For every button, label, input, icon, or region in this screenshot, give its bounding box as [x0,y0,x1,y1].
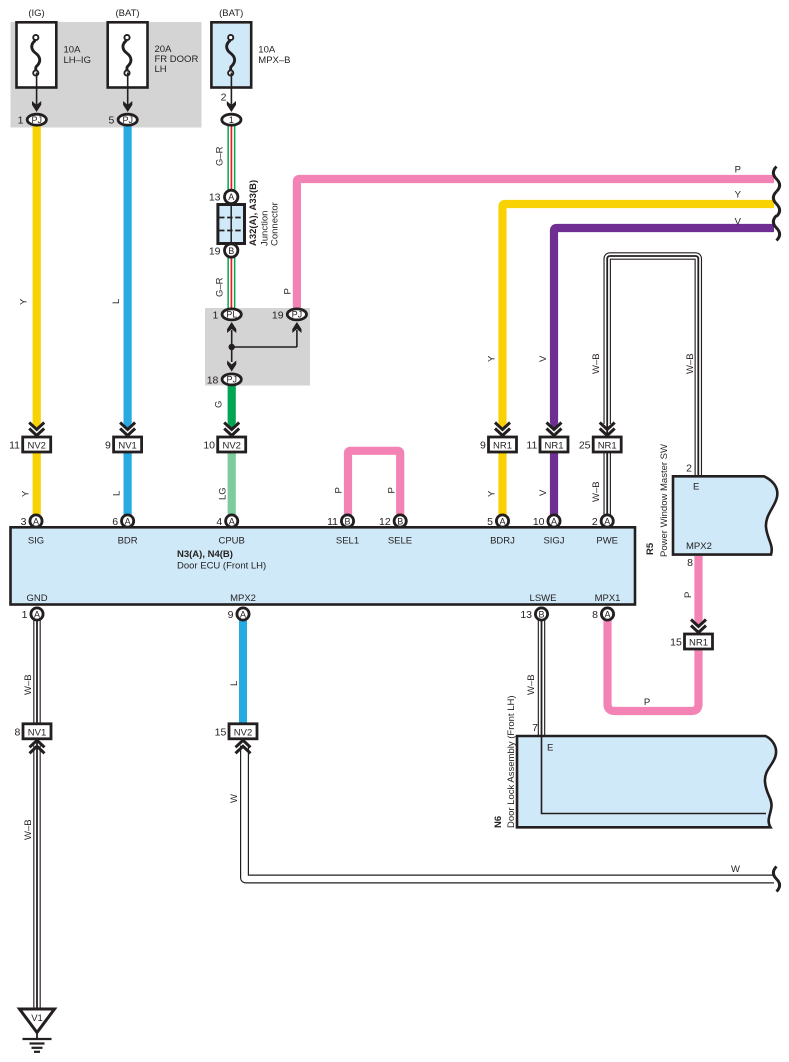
connector PJ pin 18 (gray box) [207,374,242,387]
wire P MPX1 down right up to NR1-15 to Master SW MPX2 pin 8 [608,556,703,711]
connector NR1 pin 25 [579,423,621,453]
pin 12 SELE (B) [379,515,406,528]
svg-text:Y: Y [735,190,742,201]
label L above NV1-9 [111,299,122,304]
label G-R upper [215,146,226,166]
svg-text:P: P [386,487,397,493]
svg-text:MPX2: MPX2 [230,593,256,604]
svg-text:MPX2: MPX2 [686,541,712,552]
wire LG NV2-10 to CPUB [228,452,236,515]
svg-text:Power Window Master SW: Power Window Master SW [659,444,670,557]
svg-text:12: 12 [379,516,391,528]
svg-text:PL: PL [226,310,237,320]
svg-text:Y: Y [487,355,498,362]
wire Y fuse LH-IG to NV2-11 to SIG [33,126,41,515]
wire G-R junction connector B to PL [227,257,235,309]
label W-B loop left [591,353,602,374]
svg-text:8: 8 [14,727,20,739]
pin 10 SIGJ (A) [533,515,560,528]
svg-text:Y: Y [487,490,498,497]
wire W-B loop PWE to NR1-25 up over to Master SW pin 2 [607,256,698,515]
svg-text:19: 19 [272,309,284,321]
pin 1 GND (A) [22,608,43,621]
svg-text:L: L [112,491,123,496]
pin 2 PWE (A) [592,515,613,528]
label P on SEL1 leg [334,487,345,493]
gray fuse area background [11,22,202,128]
svg-text:NR1: NR1 [493,441,512,452]
svg-text:8: 8 [592,609,598,621]
svg-text:Y: Y [19,298,30,305]
svg-text:PJ: PJ [122,115,133,125]
svg-text:2: 2 [221,92,227,104]
svg-text:MPX–B: MPX–B [258,55,290,66]
label V at break [735,217,742,228]
pin 6 BDR (A) [112,515,133,528]
ground V1 [20,1009,55,1052]
svg-text:W–B: W–B [591,353,602,374]
connector NV2 pin 15 [215,724,257,754]
ECU N3(A) N4(B) Door ECU (Front LH) [11,527,636,604]
wire P SEL1 to SELE loop [348,451,400,515]
connector NV2 pin 11 [9,423,51,453]
svg-text:8: 8 [687,557,693,569]
svg-text:LG: LG [218,487,229,500]
svg-text:10A: 10A [258,45,276,56]
svg-text:W–B: W–B [685,353,696,374]
svg-text:NV1: NV1 [118,441,136,452]
svg-text:A: A [229,517,235,527]
svg-text:(BAT): (BAT) [219,8,243,19]
svg-text:5: 5 [487,516,493,528]
label W-B loop right [685,353,696,374]
internal wiring gray box: arrows and junction [227,322,301,372]
Power Window Master SW R5 box [645,444,777,557]
svg-text:7: 7 [532,722,538,734]
svg-text:NV2: NV2 [234,727,252,738]
wire W-B GND to NV1-8 to ground V1 [33,620,41,1010]
label W vertical [229,794,240,803]
svg-text:PJ: PJ [292,310,303,320]
pin 9 MPX2 (A) [228,608,249,621]
svg-text:W–B: W–B [23,819,34,840]
svg-text:LH–IG: LH–IG [64,55,91,66]
wire L MPX2 to NV2-15 [239,620,247,730]
svg-text:6: 6 [112,516,118,528]
svg-text:P: P [735,165,741,176]
connector PJ pin 1 (fuse LH-IG) [18,114,47,127]
svg-text:SELE: SELE [388,536,412,547]
svg-text:G–R: G–R [215,146,226,166]
connector NV1 pin 9 [105,423,142,453]
label P horizontal bottom [644,697,650,708]
svg-text:PWE: PWE [596,536,618,547]
svg-text:A: A [604,610,610,620]
label V below NR1-11 [538,489,549,496]
svg-text:W: W [229,794,240,803]
label Y above NR1-9 [487,355,498,362]
label G-R lower [215,277,226,297]
svg-text:MPX1: MPX1 [595,593,621,604]
label LG below NV2-10 [218,487,229,500]
svg-text:A: A [604,517,610,527]
svg-text:A: A [551,517,557,527]
svg-text:11: 11 [9,440,20,452]
svg-text:A32(A), A33(B): A32(A), A33(B) [248,180,259,246]
svg-text:PJ: PJ [32,115,43,125]
svg-text:10: 10 [203,440,215,452]
label L MPX2 wire [229,681,240,686]
svg-text:4: 4 [216,516,222,528]
svg-text:B: B [538,610,544,620]
svg-text:V1: V1 [31,1013,43,1024]
svg-text:NV2: NV2 [222,441,240,452]
svg-text:SIGJ: SIGJ [543,536,564,547]
svg-text:PJ: PJ [226,375,237,385]
connector PJ pin 19 (gray box) [272,309,307,322]
svg-text:W: W [731,864,740,875]
label Y below NR1-9 [487,490,498,497]
svg-text:G: G [214,401,225,408]
connector PJ pin 5 (fuse FR DOOR) [109,114,138,127]
svg-text:10A: 10A [64,45,82,56]
label P pink vertical [283,288,294,294]
svg-text:E: E [547,743,553,754]
svg-text:2: 2 [592,516,598,528]
svg-text:P: P [683,592,694,598]
svg-text:A: A [34,610,40,620]
svg-text:Door ECU (Front LH): Door ECU (Front LH) [177,561,266,572]
svg-text:A: A [240,610,246,620]
label W-B below NR1-25 [591,481,602,502]
svg-text:11: 11 [526,440,537,452]
label P right vertical [683,592,694,598]
label W-B LSWE wire [526,674,537,695]
svg-text:1: 1 [22,609,28,621]
gray junction area background [205,308,310,386]
svg-text:L: L [229,681,240,686]
pin 5 BDRJ (A) [487,515,508,528]
svg-text:SEL1: SEL1 [336,536,359,547]
connector NV2 pin 10 [203,423,245,453]
svg-text:1: 1 [18,115,24,127]
svg-text:10: 10 [533,516,545,528]
svg-text:E: E [693,482,699,493]
label V above NR1-11 [538,355,549,362]
svg-text:V: V [538,489,549,496]
svg-text:CPUB: CPUB [218,536,244,547]
break Y [773,192,779,217]
svg-text:(BAT): (BAT) [115,8,139,19]
pin 8 MPX1 (A) [592,608,613,621]
wire G-R fuse MPX-B to junction connector A [227,125,235,190]
Door Lock Assembly N6 box [493,695,776,828]
label Y at break [735,190,742,201]
svg-text:5: 5 [109,115,115,127]
svg-text:NV2: NV2 [27,441,45,452]
svg-text:Door Lock Assembly (Front LH): Door Lock Assembly (Front LH) [506,695,517,828]
svg-text:(IG): (IG) [28,8,44,19]
svg-text:B: B [228,246,234,256]
svg-text:LSWE: LSWE [530,593,557,604]
svg-text:Connector: Connector [270,202,281,246]
fuse F2 20A FR DOOR LH [108,8,199,112]
svg-text:25: 25 [579,440,591,452]
svg-text:V: V [538,355,549,362]
break W [773,867,779,892]
label W at right break [731,864,740,875]
svg-text:15: 15 [670,637,682,649]
connector PL pin 1 (gray box) [213,309,242,322]
svg-text:P: P [334,487,345,493]
svg-text:SIG: SIG [28,536,44,547]
label pin 7 door lock [532,722,538,734]
svg-text:18: 18 [207,374,219,386]
junction connector A32(A) A33(B) [209,180,281,257]
wire P PJ-19 up and right to break [297,179,774,309]
svg-text:W–B: W–B [591,481,602,502]
svg-text:W–B: W–B [23,674,34,695]
svg-text:NR1: NR1 [689,638,708,649]
labels W-B GND wire [23,674,34,695]
pin 3 SIG (A) [21,515,42,528]
svg-text:15: 15 [215,727,227,739]
label P at break [735,165,741,176]
svg-text:B: B [344,517,350,527]
svg-text:A: A [228,192,234,202]
svg-text:NV1: NV1 [28,727,46,738]
label G [214,401,225,408]
svg-text:13: 13 [209,192,221,204]
wire L fuse FR DOOR to NV1-9 to BDR [124,126,132,515]
svg-text:NR1: NR1 [544,441,563,452]
pin 13 LSWE (B) [520,608,547,621]
svg-text:1: 1 [229,115,234,125]
connector NR1 pin 11 [526,423,568,453]
connector NV1 pin 8 [14,724,51,754]
pin 11 SEL1 (B) [327,515,354,528]
break V [773,216,779,241]
svg-text:V: V [735,217,742,228]
svg-text:9: 9 [480,440,486,452]
svg-text:13: 13 [520,609,532,621]
label Y below NV2-11 [21,490,32,497]
svg-text:2: 2 [686,463,692,475]
svg-text:1: 1 [213,309,219,321]
label Y above NV2-11 [19,298,30,305]
connector NR1 pin 15 [670,620,712,650]
svg-text:G–R: G–R [215,277,226,297]
svg-text:GND: GND [26,593,47,604]
svg-text:9: 9 [105,440,111,452]
wire W-B LSWE to Door Lock pin 7 [538,620,546,737]
connector NR1 pin 9 [480,423,517,453]
pin 4 CPUB (A) [216,515,237,528]
label P on SELE leg [386,487,397,493]
svg-text:L: L [111,299,122,304]
svg-text:A: A [125,517,131,527]
wire V from break to NR1-11 to SIGJ [550,228,774,515]
svg-text:N3(A), N4(B): N3(A), N4(B) [177,549,233,560]
svg-text:19: 19 [209,245,221,257]
svg-text:P: P [644,697,650,708]
label L below NV1-9 [112,491,123,496]
fuse F1 10A LH-IG [17,8,91,112]
svg-text:Y: Y [21,490,32,497]
svg-text:LH: LH [155,64,167,75]
connector 1 oval (fuse MPX-B) [222,114,241,125]
svg-text:N6: N6 [493,816,504,828]
fuse F3 10A MPX-B [211,8,290,112]
wire G PJ-18 to NV2-10 [228,385,236,430]
svg-text:11: 11 [327,516,338,528]
svg-text:P: P [283,288,294,294]
wire Y right horizontal from break to NR1-9 to BDRJ [498,204,774,515]
svg-text:BDRJ: BDRJ [490,536,515,547]
svg-text:NR1: NR1 [598,441,617,452]
svg-text:BDR: BDR [118,536,138,547]
svg-text:A: A [33,517,39,527]
wire W NV2-15 down right to break [245,746,775,880]
svg-text:9: 9 [228,609,234,621]
svg-text:W–B: W–B [526,674,537,695]
svg-text:A: A [499,517,505,527]
svg-text:R5: R5 [645,542,656,555]
break P [773,167,779,192]
svg-text:3: 3 [21,516,27,528]
label 8 below Master SW [687,557,693,569]
svg-text:B: B [397,517,403,527]
